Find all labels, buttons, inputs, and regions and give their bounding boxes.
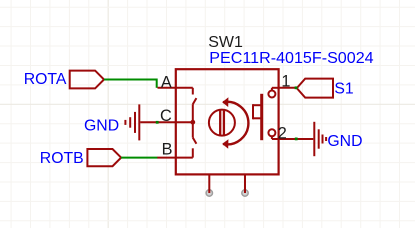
svg-text:C: C xyxy=(160,107,172,125)
svg-text:2: 2 xyxy=(278,124,287,142)
svg-text:S1: S1 xyxy=(334,81,354,98)
svg-text:GND: GND xyxy=(84,117,119,134)
svg-text:ROTB: ROTB xyxy=(40,150,84,167)
svg-text:A: A xyxy=(161,73,172,91)
svg-text:1: 1 xyxy=(281,72,290,90)
svg-text:PEC11R-4015F-S0024: PEC11R-4015F-S0024 xyxy=(209,49,373,67)
svg-text:ROTA: ROTA xyxy=(24,71,67,88)
svg-text:B: B xyxy=(162,141,173,159)
svg-text:GND: GND xyxy=(327,133,362,150)
